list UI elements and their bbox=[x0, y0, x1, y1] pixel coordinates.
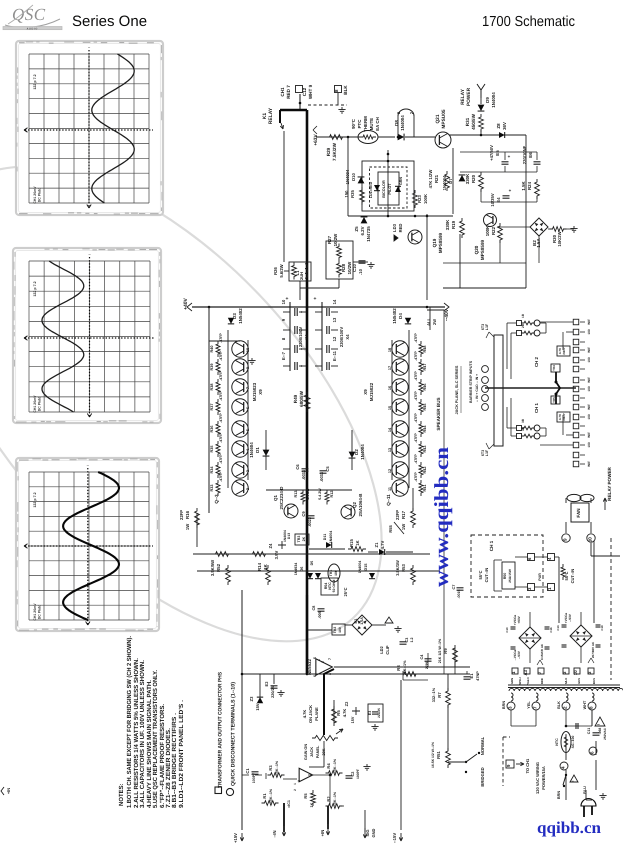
svg-text:330K: 330K bbox=[445, 219, 450, 230]
svg-text:1: 1 bbox=[293, 783, 297, 785]
svg-text:1N4604: 1N4604 bbox=[249, 442, 254, 458]
svg-text:3B: 3B bbox=[521, 418, 525, 423]
svg-text:10: 10 bbox=[587, 537, 592, 543]
svg-text:10K--1%: 10K--1% bbox=[269, 788, 273, 803]
svg-text:C5: C5 bbox=[325, 466, 330, 472]
svg-text:D6: D6 bbox=[300, 567, 304, 572]
svg-text:2B: 2B bbox=[521, 323, 525, 328]
svg-text:E5: E5 bbox=[495, 150, 500, 156]
svg-text:BUS: BUS bbox=[592, 678, 596, 684]
svg-text:2SA1064-B: 2SA1064-B bbox=[358, 494, 363, 517]
svg-text:EA CH: EA CH bbox=[375, 117, 380, 131]
svg-text:100: 100 bbox=[587, 357, 591, 363]
svg-text:TR3: TR3 bbox=[297, 536, 301, 543]
svg-text:1.5A: 1.5A bbox=[360, 617, 364, 625]
svg-text:1K: 1K bbox=[263, 563, 268, 569]
svg-text:--93V: --93V bbox=[517, 650, 521, 659]
svg-text:16.5K 1/2 W--1%: 16.5K 1/2 W--1% bbox=[431, 742, 435, 768]
svg-text:PLANE: PLANE bbox=[314, 707, 319, 721]
svg-text:1N4004: 1N4004 bbox=[283, 530, 287, 542]
svg-text:Z1: Z1 bbox=[374, 542, 379, 548]
svg-text:R35: R35 bbox=[210, 446, 214, 453]
svg-text:GRN: GRN bbox=[510, 678, 514, 684]
svg-text:10: 10 bbox=[281, 299, 286, 304]
svg-text:1N5402: 1N5402 bbox=[392, 308, 397, 324]
svg-text:--IN: --IN bbox=[272, 831, 277, 838]
svg-text:NTC: NTC bbox=[555, 738, 559, 746]
svg-text:1N4934: 1N4934 bbox=[294, 563, 298, 576]
svg-text:100: 100 bbox=[587, 386, 591, 392]
svg-text:S/LO: S/LO bbox=[564, 677, 568, 684]
svg-text:1N4004: 1N4004 bbox=[442, 175, 447, 190]
svg-text:D13: D13 bbox=[287, 533, 291, 539]
svg-text:9: 9 bbox=[562, 538, 567, 541]
svg-text:+: + bbox=[508, 154, 511, 159]
svg-text:Q20: Q20 bbox=[474, 245, 479, 254]
svg-text:100: 100 bbox=[338, 627, 342, 633]
svg-text:C18: C18 bbox=[600, 625, 604, 631]
svg-text:10K--1%: 10K--1% bbox=[333, 791, 337, 806]
svg-text:9.LD1--LD2 FRONT PANEL LED'S: 9.LD1--LD2 FRONT PANEL LED'S . bbox=[178, 700, 185, 808]
svg-text:BRN: BRN bbox=[557, 791, 561, 799]
svg-text:C12: C12 bbox=[302, 87, 307, 96]
svg-text:5.4 2W: 5.4 2W bbox=[318, 488, 322, 500]
svg-text:NOTES:: NOTES: bbox=[118, 783, 125, 806]
svg-text:6."FP"--FLAME PROOF RESISTORS.: 6."FP"--FLAME PROOF RESISTORS. bbox=[159, 704, 166, 808]
svg-text:Q--11: Q--11 bbox=[386, 494, 391, 506]
svg-text:R49: R49 bbox=[293, 394, 298, 403]
svg-text:25Ω/15W: 25Ω/15W bbox=[508, 569, 512, 583]
svg-text:+15V: +15V bbox=[233, 833, 238, 843]
svg-text:R27: R27 bbox=[327, 235, 332, 244]
svg-text:RED 7: RED 7 bbox=[286, 85, 291, 99]
svg-text:--93V: --93V bbox=[568, 613, 572, 622]
svg-text:R55: R55 bbox=[388, 525, 393, 533]
svg-text:R21: R21 bbox=[434, 174, 439, 183]
svg-text:NE5532: NE5532 bbox=[307, 659, 312, 675]
svg-text:GND: GND bbox=[371, 828, 376, 837]
svg-text:www.qqibb.cn: www.qqibb.cn bbox=[431, 447, 453, 587]
svg-text:6: 6 bbox=[589, 751, 594, 754]
svg-text:220/25: 220/25 bbox=[271, 686, 275, 698]
svg-text:11: 11 bbox=[388, 487, 392, 491]
svg-text:R33: R33 bbox=[210, 485, 214, 492]
svg-text:SPEAKER BUS: SPEAKER BUS bbox=[436, 397, 441, 430]
svg-text:100PF: 100PF bbox=[356, 769, 360, 779]
svg-text:MPS8599: MPS8599 bbox=[438, 232, 443, 253]
svg-text:1.BOTH CH. SAME EXCEPT FOR BRI: 1.BOTH CH. SAME EXCEPT FOR BRIDGING SW (… bbox=[126, 636, 133, 808]
svg-text:R43: R43 bbox=[423, 446, 427, 453]
svg-text:250VAC: 250VAC bbox=[603, 727, 607, 740]
svg-text:D1: D1 bbox=[255, 447, 260, 453]
svg-text:R41: R41 bbox=[423, 485, 427, 492]
svg-text:.47FP: .47FP bbox=[414, 454, 418, 464]
svg-text:122 p 7.2: 122 p 7.2 bbox=[33, 74, 37, 89]
svg-text:RED: RED bbox=[540, 678, 544, 684]
svg-text:R39: R39 bbox=[210, 364, 214, 371]
svg-text:R47: R47 bbox=[423, 364, 427, 371]
svg-text:SIG: SIG bbox=[365, 830, 370, 837]
svg-text:RELAY: RELAY bbox=[460, 88, 466, 105]
svg-text:R38: R38 bbox=[210, 384, 214, 391]
svg-text:R46: R46 bbox=[423, 384, 427, 391]
svg-text:Z5: Z5 bbox=[354, 226, 359, 232]
svg-text:R14: R14 bbox=[257, 562, 262, 571]
svg-text:267/98V AC: 267/98V AC bbox=[591, 641, 595, 658]
svg-text:1N4004: 1N4004 bbox=[400, 115, 405, 131]
svg-text:.47FP: .47FP bbox=[414, 333, 418, 343]
svg-text:100: 100 bbox=[587, 329, 591, 335]
svg-text:SPKJ: SPKJ bbox=[518, 677, 522, 685]
svg-text:2: 2 bbox=[293, 789, 297, 791]
svg-text:1.5A: 1.5A bbox=[536, 238, 541, 248]
svg-text:BLK: BLK bbox=[343, 85, 348, 95]
svg-text:X4: X4 bbox=[304, 334, 309, 340]
svg-text:+63V: +63V bbox=[313, 134, 319, 146]
svg-text:Z2: Z2 bbox=[344, 701, 349, 706]
svg-text:C6: C6 bbox=[295, 464, 300, 470]
svg-text:CH 2: CH 2 bbox=[534, 356, 539, 367]
svg-text:R40: R40 bbox=[210, 346, 214, 353]
svg-text:100: 100 bbox=[587, 414, 591, 420]
svg-text:qqibb.cn: qqibb.cn bbox=[537, 818, 601, 837]
svg-text:JACK: JACK bbox=[310, 747, 314, 758]
svg-text:DC Pkdd: DC Pkdd bbox=[38, 188, 42, 203]
svg-text:BLK: BLK bbox=[557, 701, 561, 709]
svg-text:PUR: PUR bbox=[538, 573, 542, 581]
svg-text:L1F: L1F bbox=[485, 323, 489, 330]
svg-text:D5: D5 bbox=[310, 561, 314, 566]
svg-text:.47FP: .47FP bbox=[219, 433, 223, 443]
svg-text:+: + bbox=[509, 188, 512, 193]
svg-text:1N5402: 1N5402 bbox=[238, 308, 243, 324]
svg-text:NORMAL: NORMAL bbox=[480, 736, 485, 755]
svg-text:15: 15 bbox=[388, 406, 392, 410]
svg-text:1N4004: 1N4004 bbox=[358, 561, 362, 574]
svg-text:Q2: Q2 bbox=[352, 502, 357, 508]
svg-text:R42: R42 bbox=[423, 467, 427, 474]
svg-text:3.5K/5W: 3.5K/5W bbox=[210, 560, 215, 576]
svg-text:100K: 100K bbox=[485, 225, 490, 236]
svg-text:.0015: .0015 bbox=[457, 590, 461, 599]
svg-text:MPSU05: MPSU05 bbox=[441, 109, 447, 129]
svg-text:R13: R13 bbox=[294, 491, 298, 498]
svg-text:A3: A3 bbox=[523, 669, 528, 675]
svg-text:R1: R1 bbox=[262, 793, 267, 799]
svg-text:50 OHM: 50 OHM bbox=[332, 580, 336, 593]
svg-text:WHT 9: WHT 9 bbox=[308, 84, 313, 99]
svg-text:CLIP: CLIP bbox=[385, 645, 390, 654]
svg-text:YEL: YEL bbox=[527, 701, 531, 709]
svg-text:1N4004: 1N4004 bbox=[360, 444, 365, 460]
svg-text:75K--1%: 75K--1% bbox=[403, 660, 407, 676]
svg-text:C10: C10 bbox=[352, 263, 357, 271]
svg-text:332--1%: 332--1% bbox=[432, 687, 436, 702]
svg-text:R29: R29 bbox=[326, 147, 331, 156]
svg-text:55°C: 55°C bbox=[478, 570, 483, 579]
svg-text:5.4 2W: 5.4 2W bbox=[306, 488, 310, 500]
svg-text:.47FP: .47FP bbox=[414, 413, 418, 423]
svg-text:.47FP: .47FP bbox=[219, 351, 223, 361]
svg-text:2: 2 bbox=[321, 661, 325, 663]
svg-text:.47FP: .47FP bbox=[414, 433, 418, 443]
svg-text:2K: 2K bbox=[302, 536, 306, 541]
svg-text:.47FP: .47FP bbox=[414, 391, 418, 401]
svg-text:BRIDGED: BRIDGED bbox=[480, 767, 485, 786]
svg-text:3.9V: 3.9V bbox=[274, 550, 279, 559]
svg-text:4.7K: 4.7K bbox=[302, 710, 307, 719]
svg-text:CH1: CH1 bbox=[280, 87, 285, 97]
svg-text:WIF: WIF bbox=[587, 377, 591, 383]
svg-text:RED: RED bbox=[398, 224, 403, 233]
svg-text:DC Pkdd: DC Pkdd bbox=[38, 397, 42, 412]
svg-text:X9: X9 bbox=[363, 389, 368, 395]
svg-text:FAN: FAN bbox=[576, 508, 581, 518]
svg-text:E--11: E--11 bbox=[332, 350, 337, 361]
svg-text:47NP: 47NP bbox=[476, 671, 480, 681]
svg-text:+47/50V: +47/50V bbox=[489, 145, 494, 161]
svg-text:C16: C16 bbox=[549, 627, 553, 633]
svg-text:ON JACK: ON JACK bbox=[308, 705, 313, 723]
svg-text:GRN: GRN bbox=[399, 177, 403, 185]
svg-text:18: 18 bbox=[388, 348, 392, 352]
svg-text:2UH: 2UH bbox=[299, 272, 304, 280]
svg-text:+IN: +IN bbox=[320, 830, 325, 837]
svg-text:.47FP: .47FP bbox=[219, 413, 223, 423]
svg-text:8: 8 bbox=[588, 706, 593, 709]
svg-text:TO CH1: TO CH1 bbox=[525, 758, 530, 773]
svg-text:.47FP: .47FP bbox=[414, 472, 418, 482]
svg-text:R15: R15 bbox=[349, 538, 354, 546]
svg-text:6T3: 6T3 bbox=[481, 450, 485, 456]
svg-text:Q--3: Q--3 bbox=[214, 494, 219, 504]
svg-text:POWER/15A: POWER/15A bbox=[541, 766, 546, 790]
svg-text:R31: R31 bbox=[465, 117, 470, 126]
svg-text:WIF: WIF bbox=[587, 432, 591, 438]
svg-text:14: 14 bbox=[332, 299, 337, 304]
svg-text:4.7V: 4.7V bbox=[380, 540, 385, 549]
svg-text:10/2W: 10/2W bbox=[333, 233, 338, 247]
svg-text:1N4735: 1N4735 bbox=[366, 226, 371, 242]
svg-text:25°C: 25°C bbox=[343, 587, 348, 596]
svg-text:13: 13 bbox=[332, 317, 337, 322]
svg-text:21K 1/2 W--1%: 21K 1/2 W--1% bbox=[438, 638, 442, 663]
svg-text:100: 100 bbox=[587, 442, 591, 448]
svg-text:122 p 7.2: 122 p 7.2 bbox=[33, 492, 37, 507]
svg-text:8.B1--B3 BRIDGE RECTIFIRS .: 8.B1--B3 BRIDGE RECTIFIRS . bbox=[171, 713, 178, 808]
svg-text:MUTE: MUTE bbox=[369, 118, 374, 131]
svg-text:2: 2 bbox=[246, 488, 250, 490]
svg-text:PANEL: PANEL bbox=[316, 745, 320, 758]
svg-text:+IN: +IN bbox=[6, 788, 11, 794]
svg-text:D2: D2 bbox=[354, 449, 359, 455]
svg-text:THERM: THERM bbox=[363, 116, 368, 132]
svg-text:680/5W: 680/5W bbox=[299, 390, 304, 406]
svg-text:22FP: 22FP bbox=[179, 510, 184, 520]
svg-text:.0022: .0022 bbox=[307, 516, 312, 527]
svg-text:R23: R23 bbox=[417, 194, 422, 202]
svg-text:C1: C1 bbox=[245, 768, 250, 774]
svg-text:330K: 330K bbox=[465, 173, 470, 184]
svg-text:R45: R45 bbox=[423, 404, 427, 411]
svg-text:R16: R16 bbox=[185, 510, 190, 519]
svg-text:R28: R28 bbox=[341, 263, 346, 272]
svg-text:C8: C8 bbox=[312, 606, 316, 611]
svg-text:10K--1%: 10K--1% bbox=[275, 760, 279, 775]
svg-text:D9: D9 bbox=[485, 97, 490, 103]
svg-text:CH1 20mV: CH1 20mV bbox=[33, 186, 37, 204]
svg-text:CH1 20mV: CH1 20mV bbox=[33, 603, 37, 621]
svg-text:2.ALL RESISTORS 1/4 WATTS 5% U: 2.ALL RESISTORS 1/4 WATTS 5% UNLESS SHOW… bbox=[133, 658, 140, 808]
svg-text:D15: D15 bbox=[364, 564, 368, 571]
svg-text:3.5K/3W: 3.5K/3W bbox=[395, 560, 400, 576]
svg-text:1W: 1W bbox=[185, 524, 190, 530]
svg-text:WIF: WIF bbox=[587, 461, 591, 467]
svg-text:2200/100V: 2200/100V bbox=[298, 327, 303, 347]
svg-text:16: 16 bbox=[388, 386, 392, 390]
svg-text:10/35V: 10/35V bbox=[490, 193, 495, 206]
svg-text:1N4004: 1N4004 bbox=[329, 531, 333, 544]
svg-text:E3: E3 bbox=[368, 711, 372, 715]
svg-text:5.USE QSC REPLACEMENT TRANSIST: 5.USE QSC REPLACEMENT TRANSISTORS ONLY. bbox=[152, 670, 159, 808]
svg-text:TR1: TR1 bbox=[329, 570, 333, 577]
svg-text:WHT: WHT bbox=[583, 700, 587, 709]
svg-text:4B: 4B bbox=[521, 426, 525, 431]
svg-text:QUICK DISCONNECT TERMINALS (1-: QUICK DISCONNECT TERMINALS (1--10) bbox=[231, 682, 237, 786]
svg-text:Series One: Series One bbox=[72, 13, 147, 30]
svg-text:WIF: WIF bbox=[587, 319, 591, 325]
svg-text:RELAY: RELAY bbox=[268, 107, 274, 124]
svg-text:+: + bbox=[314, 296, 317, 302]
svg-text:1: 1 bbox=[317, 659, 321, 661]
svg-text:100: 100 bbox=[334, 570, 338, 576]
svg-text:MJ15022: MJ15022 bbox=[369, 382, 374, 401]
svg-text:4: 4 bbox=[560, 766, 565, 769]
svg-text:15V: 15V bbox=[255, 703, 260, 710]
svg-text:12: 12 bbox=[388, 469, 392, 473]
svg-text:1N4004: 1N4004 bbox=[345, 169, 350, 184]
svg-text:R7: R7 bbox=[437, 692, 442, 698]
svg-text:.068: .068 bbox=[598, 728, 602, 735]
svg-text:+93V: +93V bbox=[517, 615, 521, 623]
svg-text:13: 13 bbox=[388, 448, 392, 452]
svg-text:2: 2 bbox=[297, 780, 301, 782]
svg-text:3: 3 bbox=[507, 706, 512, 709]
svg-text:=IC1: =IC1 bbox=[287, 800, 291, 808]
svg-text:4.HEAVY LINE SHOWS MAIN SIGNAL: 4.HEAVY LINE SHOWS MAIN SIGNAL PATH. bbox=[146, 680, 153, 808]
svg-text:120 VAC WIRING: 120 VAC WIRING bbox=[535, 762, 540, 794]
svg-text:PTC: PTC bbox=[357, 119, 362, 129]
svg-text:1.2: 1.2 bbox=[410, 638, 414, 643]
svg-text:17: 17 bbox=[388, 366, 392, 370]
svg-text:E--7: E--7 bbox=[281, 351, 286, 360]
svg-text:R3: R3 bbox=[268, 765, 273, 771]
svg-text:4.7K: 4.7K bbox=[342, 709, 347, 718]
svg-text:!: ! bbox=[571, 780, 575, 781]
svg-text:CH 1: CH 1 bbox=[489, 540, 494, 551]
svg-text:L1F: L1F bbox=[485, 449, 489, 456]
svg-text:DC Pkdd: DC Pkdd bbox=[38, 605, 42, 620]
svg-text:C15M/R AC: C15M/R AC bbox=[540, 643, 544, 660]
svg-text:TR4: TR4 bbox=[552, 365, 556, 371]
svg-text:.47FP: .47FP bbox=[414, 351, 418, 361]
svg-text:SG--100: SG--100 bbox=[571, 735, 575, 748]
svg-text:R9: R9 bbox=[443, 648, 448, 654]
svg-text:R51: R51 bbox=[436, 750, 441, 758]
svg-text:R53: R53 bbox=[401, 563, 406, 571]
svg-text:6: 6 bbox=[313, 675, 317, 677]
svg-text:C3: C3 bbox=[405, 638, 409, 643]
svg-text:--15V: --15V bbox=[392, 833, 397, 843]
svg-text:X4: X4 bbox=[345, 334, 350, 340]
svg-text:B1: B1 bbox=[354, 619, 358, 624]
svg-text:D3: D3 bbox=[232, 313, 237, 319]
svg-text:2200/100V: 2200/100V bbox=[339, 327, 344, 347]
svg-text:Q19: Q19 bbox=[432, 238, 437, 247]
svg-text:WIF: WIF bbox=[587, 404, 591, 410]
svg-text:7: 7 bbox=[328, 658, 332, 660]
svg-text:RELAY POWER: RELAY POWER bbox=[607, 466, 612, 500]
svg-text:12: 12 bbox=[332, 336, 337, 341]
svg-text:47K 1/2W: 47K 1/2W bbox=[428, 170, 433, 189]
svg-text:R22: R22 bbox=[491, 226, 496, 235]
svg-text:GUS: GUS bbox=[577, 678, 581, 684]
svg-text:.0033: .0033 bbox=[301, 469, 306, 480]
svg-text:PILOT: PILOT bbox=[388, 183, 392, 195]
svg-text:5.6/2W: 5.6/2W bbox=[279, 264, 284, 277]
svg-text:Z4: Z4 bbox=[268, 543, 273, 549]
svg-text:.10: .10 bbox=[358, 268, 363, 274]
svg-text:JACK PLANE, SLC SERIES: JACK PLANE, SLC SERIES bbox=[455, 365, 459, 414]
svg-text:R12: R12 bbox=[330, 491, 334, 498]
svg-text:C13: C13 bbox=[556, 625, 560, 631]
svg-text:LD2: LD2 bbox=[379, 645, 384, 653]
svg-text:BARRIER STRIP INPUTS: BARRIER STRIP INPUTS bbox=[469, 360, 473, 403]
svg-text:R44: R44 bbox=[423, 425, 427, 433]
svg-text:36V: 36V bbox=[502, 122, 507, 130]
svg-text:E1: E1 bbox=[469, 673, 474, 679]
svg-text:D4: D4 bbox=[398, 313, 403, 319]
svg-text:7.5K/2W: 7.5K/2W bbox=[332, 142, 337, 161]
svg-text:7: 7 bbox=[532, 706, 537, 709]
svg-text:YALO: YALO bbox=[526, 676, 530, 684]
svg-text:R35: R35 bbox=[350, 189, 355, 197]
svg-text:D11: D11 bbox=[323, 534, 327, 540]
svg-text:-- IN + CAD -- IN +: -- IN + CAD -- IN + bbox=[475, 374, 479, 402]
svg-text:10K/2W: 10K/2W bbox=[557, 231, 562, 246]
svg-text:Z3: Z3 bbox=[249, 696, 254, 702]
svg-text:.47FP: .47FP bbox=[219, 454, 223, 464]
svg-text:!: ! bbox=[596, 724, 601, 725]
svg-text:R36: R36 bbox=[210, 426, 214, 433]
svg-text:POWER: POWER bbox=[466, 87, 472, 106]
svg-text:C10: C10 bbox=[505, 627, 509, 633]
svg-text:GAIN ON: GAIN ON bbox=[304, 744, 308, 761]
svg-text:LD1=RED: LD1=RED bbox=[369, 181, 373, 198]
svg-text:D10: D10 bbox=[351, 172, 356, 180]
svg-text:WIF: WIF bbox=[587, 347, 591, 353]
svg-text:MPS8599: MPS8599 bbox=[480, 239, 485, 260]
svg-text:TR2: TR2 bbox=[333, 627, 337, 634]
svg-text:BICOLOR: BICOLOR bbox=[382, 180, 386, 198]
svg-text:R4: R4 bbox=[326, 763, 331, 769]
svg-text:Z8: Z8 bbox=[496, 123, 501, 129]
svg-text:7.Z1--Z8 ZENER DIODES.: 7.Z1--Z8 ZENER DIODES. bbox=[165, 728, 172, 808]
svg-text:.47FP: .47FP bbox=[219, 472, 223, 482]
svg-text:LD3: LD3 bbox=[392, 223, 397, 232]
svg-text:3.ALL CAPACITORS IN UF. 100V U: 3.ALL CAPACITORS IN UF. 100V UNLESS SHOW… bbox=[139, 660, 146, 808]
svg-text:QSC: QSC bbox=[12, 5, 46, 24]
